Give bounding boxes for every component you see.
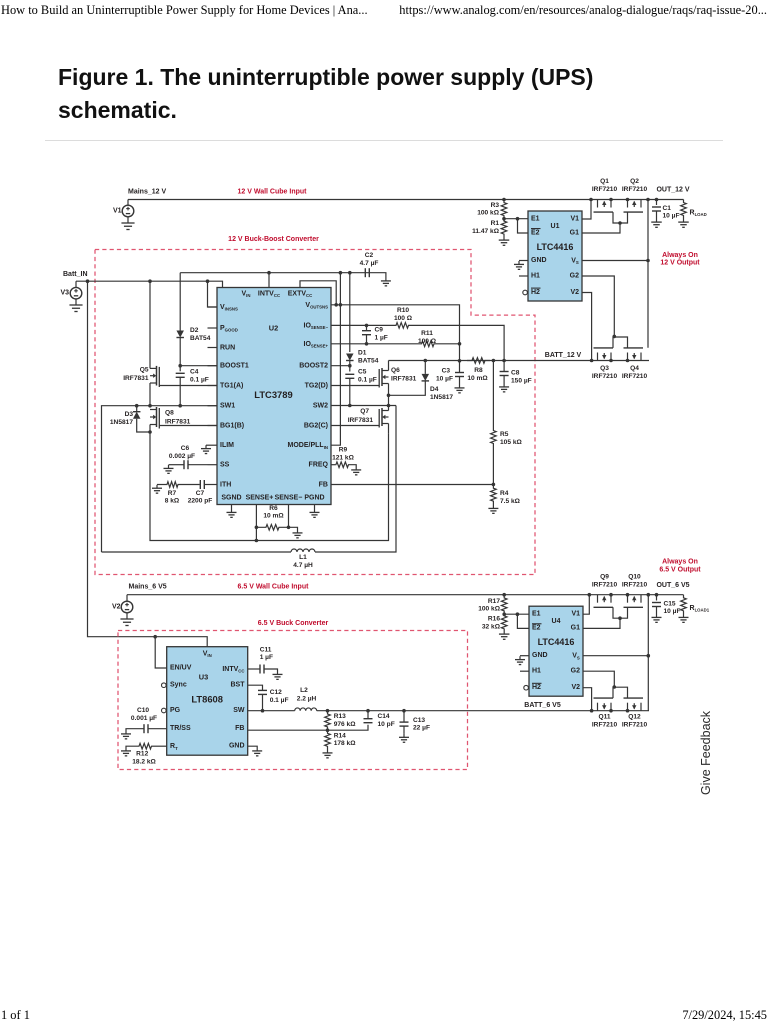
junction (609, 709, 613, 713)
wire (613, 687, 628, 698)
give feedback vertical tab (699, 711, 713, 795)
svg-text:L1: L1 (299, 554, 307, 561)
junction (516, 612, 520, 616)
svg-text:C15: C15 (664, 601, 676, 608)
wire (288, 505, 290, 528)
junction (626, 709, 630, 713)
svg-text:IRF7831: IRF7831 (391, 375, 417, 382)
junction (618, 616, 622, 620)
svg-text:U2: U2 (269, 324, 278, 333)
wire (268, 273, 270, 288)
svg-text:R13: R13 (334, 713, 346, 720)
inductor L2 (248, 710, 295, 712)
wire (517, 614, 529, 628)
junction (334, 303, 338, 307)
svg-text:G2: G2 (570, 273, 579, 280)
transistor Q2 IRF7210 (627, 200, 629, 208)
svg-text:R17: R17 (488, 598, 500, 605)
svg-text:H1: H1 (532, 668, 541, 675)
svg-text:C2: C2 (365, 252, 374, 259)
svg-text:Q5: Q5 (140, 367, 149, 374)
inverter bubble Sync (162, 683, 167, 688)
inductor L1 (102, 551, 292, 553)
svg-text:7.5 kΩ: 7.5 kΩ (500, 498, 521, 505)
junction (148, 404, 152, 408)
wire (519, 275, 528, 277)
junction (609, 198, 613, 202)
svg-text:U1: U1 (551, 223, 560, 230)
junction (502, 593, 506, 597)
wire (583, 618, 620, 628)
svg-text:H2: H2 (532, 684, 541, 691)
svg-text:C4: C4 (190, 368, 199, 375)
transistor Q12 IRF7210 (627, 703, 629, 711)
svg-text:C6: C6 (181, 445, 190, 452)
svg-text:FB: FB (319, 481, 328, 488)
transistor Q1 IRF7210 (597, 200, 599, 208)
svg-text:D1: D1 (358, 349, 367, 356)
ground (277, 671, 279, 674)
svg-text:10 µF: 10 µF (663, 213, 680, 220)
svg-text:12 V Buck-Boost Converter: 12 V Buck-Boost Converter (228, 236, 319, 243)
wire (583, 688, 592, 711)
wire (331, 405, 396, 407)
wire (128, 199, 684, 201)
junction (626, 593, 630, 597)
transistor Q5 IRF7831 (150, 367, 157, 369)
svg-text:IRF7210: IRF7210 (592, 373, 618, 380)
ground (75, 301, 77, 306)
svg-text:BST: BST (231, 682, 246, 689)
resistor R12 (152, 745, 167, 747)
svg-text:Q12: Q12 (628, 713, 641, 720)
svg-text:EN/UV: EN/UV (170, 665, 192, 672)
svg-text:IRF7210: IRF7210 (592, 721, 618, 728)
transistor Q6 IRF7831 (382, 370, 389, 372)
svg-text:C8: C8 (511, 369, 520, 376)
svg-text:LTC4416: LTC4416 (537, 242, 574, 252)
svg-text:121 kΩ: 121 kΩ (332, 454, 355, 461)
junction (339, 271, 343, 275)
wire (582, 223, 620, 233)
wire (582, 260, 648, 262)
svg-text:R1: R1 (491, 220, 500, 227)
capacitor C7 (205, 484, 208, 486)
svg-text:Q6: Q6 (391, 367, 400, 374)
inverter bubble H2 U1 (523, 290, 528, 295)
junction (206, 279, 210, 283)
svg-text:V2: V2 (571, 684, 580, 691)
transistor Q9 IRF7210 (597, 595, 599, 603)
svg-text:0.1 µF: 0.1 µF (190, 376, 209, 383)
svg-text:32 kΩ: 32 kΩ (482, 624, 501, 631)
wire (519, 260, 528, 262)
junction (365, 324, 369, 328)
wire (159, 385, 217, 387)
junction (646, 259, 650, 263)
svg-text:Sync: Sync (170, 682, 187, 689)
svg-text:R6: R6 (269, 505, 278, 512)
svg-text:U3: U3 (199, 673, 208, 682)
ground (519, 656, 521, 659)
svg-text:100 Ω: 100 Ω (418, 338, 437, 345)
resistor R10 (331, 324, 396, 326)
svg-text:10 µF: 10 µF (436, 376, 453, 383)
op-amp U2 LTC3789 body (217, 288, 331, 505)
resistor R5 (492, 361, 494, 429)
junction (424, 359, 428, 363)
svg-text:R14: R14 (334, 732, 346, 739)
ground (126, 615, 128, 620)
svg-text:TR/SS: TR/SS (170, 725, 191, 732)
inverter bubble PG (162, 708, 167, 713)
junction (178, 404, 182, 408)
svg-text:0.1 µF: 0.1 µF (270, 697, 289, 704)
ground (314, 509, 316, 512)
svg-text:IRF7210: IRF7210 (622, 373, 648, 380)
wire (255, 505, 257, 541)
wire (248, 746, 258, 747)
resistor R1 (501, 219, 507, 237)
junction (387, 404, 391, 408)
wire (613, 337, 628, 348)
wire (520, 655, 529, 657)
ground (168, 465, 170, 468)
junction (153, 635, 157, 639)
footer left: page number (1, 1008, 30, 1023)
svg-text:D3: D3 (125, 411, 134, 418)
voltage source V2 (126, 595, 128, 602)
junction (588, 593, 592, 597)
junction (647, 593, 651, 597)
wire (300, 281, 336, 305)
wire (388, 361, 390, 371)
svg-text:12 V Output: 12 V Output (660, 260, 700, 267)
svg-text:H2: H2 (531, 289, 540, 296)
wire (582, 276, 614, 336)
junction (516, 217, 520, 221)
svg-text:SW: SW (233, 707, 245, 714)
ground (125, 731, 127, 734)
svg-text:IRF7210: IRF7210 (622, 186, 648, 193)
svg-text:6.5 V Buck Converter: 6.5 V Buck Converter (258, 620, 329, 627)
wire (583, 655, 648, 657)
junction (86, 279, 90, 283)
ground (231, 509, 233, 512)
svg-text:Q4: Q4 (630, 365, 639, 372)
svg-text:R11: R11 (421, 330, 433, 337)
svg-text:8 kΩ: 8 kΩ (165, 498, 180, 505)
resistor R9 (331, 464, 335, 466)
svg-text:D4: D4 (430, 386, 439, 393)
wire (583, 595, 589, 615)
wire (647, 595, 649, 711)
capacitor C5 (345, 373, 354, 375)
svg-text:BATT_6 V5: BATT_6 V5 (524, 702, 561, 709)
transistor Q3 IRF7210 (597, 353, 599, 361)
svg-text:10 µF: 10 µF (664, 608, 681, 615)
capacitor C12 (248, 685, 263, 690)
wire (150, 425, 389, 541)
resistor R6 (256, 525, 288, 531)
svg-text:1N5817: 1N5817 (110, 419, 133, 426)
svg-text:FREQ: FREQ (309, 461, 329, 468)
svg-text:Q3: Q3 (600, 365, 609, 372)
capacitor C11 (248, 668, 260, 670)
svg-text:RLOAD1: RLOAD1 (690, 604, 710, 612)
wire (331, 425, 379, 427)
svg-text:R10: R10 (397, 307, 409, 314)
svg-text:V2: V2 (112, 604, 121, 611)
voltage source V1 (127, 200, 129, 206)
svg-text:OUT_6 V5: OUT_6 V5 (656, 582, 689, 589)
wire (127, 594, 684, 596)
wire (179, 273, 181, 331)
junction (135, 404, 139, 408)
wire (149, 383, 151, 406)
svg-text:E2: E2 (531, 230, 540, 237)
wire (331, 273, 340, 446)
ground (205, 445, 207, 448)
svg-text:100 kΩ: 100 kΩ (478, 606, 501, 613)
svg-text:E1: E1 (532, 611, 541, 618)
junction (613, 335, 617, 339)
junction (626, 198, 630, 202)
resistor R14 (325, 730, 331, 749)
wire (331, 365, 350, 367)
op-amp U4 LTC4416 body (529, 606, 583, 696)
wire (206, 444, 208, 446)
junction (261, 709, 265, 713)
svg-text:R16: R16 (488, 616, 500, 623)
svg-text:V1: V1 (570, 216, 579, 223)
svg-text:976 kΩ: 976 kΩ (334, 721, 357, 728)
junction (402, 709, 406, 713)
svg-text:0.002 µF: 0.002 µF (169, 453, 195, 460)
op-amp U3 LT8608 body (167, 647, 248, 756)
ground (327, 750, 329, 753)
wire (208, 306, 218, 308)
svg-text:2.2 µH: 2.2 µH (297, 696, 317, 703)
junction (326, 709, 330, 713)
diode D3 1N5817 (136, 406, 138, 412)
junction (148, 279, 152, 283)
svg-text:178 kΩ: 178 kΩ (334, 740, 357, 747)
svg-text:IRF7831: IRF7831 (123, 375, 149, 382)
junction (502, 359, 506, 363)
wire (208, 484, 218, 486)
svg-text:LTC4416: LTC4416 (538, 637, 575, 647)
wire (155, 637, 167, 668)
wire (314, 505, 316, 510)
header left: page title (1, 3, 368, 18)
svg-text:150 µF: 150 µF (511, 377, 532, 384)
svg-text:10 pF: 10 pF (378, 721, 395, 728)
svg-text:V1: V1 (113, 208, 122, 215)
capacitor C14 (367, 711, 369, 719)
junction (255, 539, 259, 543)
ground (156, 485, 158, 488)
ground (127, 219, 129, 224)
ground (503, 237, 505, 241)
svg-text:Q11: Q11 (598, 713, 610, 720)
svg-text:0.1 µF: 0.1 µF (358, 376, 377, 383)
header right: URL (399, 3, 767, 18)
svg-text:H1: H1 (531, 273, 540, 280)
junction (655, 593, 659, 597)
svg-text:LT8608: LT8608 (191, 694, 223, 705)
svg-text:BG2(C): BG2(C) (304, 422, 328, 429)
wire (159, 425, 217, 427)
svg-text:U4: U4 (552, 618, 561, 625)
capacitor C1 (656, 200, 658, 206)
wire (518, 219, 529, 233)
svg-text:SW2: SW2 (313, 402, 328, 409)
ground (492, 505, 494, 508)
svg-text:1N5817: 1N5817 (430, 394, 453, 401)
resistor R13 (325, 711, 331, 731)
capacitor C2 (364, 268, 366, 277)
wire (208, 385, 218, 387)
svg-text:TG1(A): TG1(A) (220, 382, 243, 389)
junction (492, 359, 496, 363)
svg-text:Q8: Q8 (165, 410, 174, 417)
resistor RLOAD (681, 200, 687, 219)
junction (613, 685, 617, 689)
resistor RLOAD1 (681, 595, 687, 614)
svg-text:GND: GND (532, 652, 548, 659)
junction (267, 271, 271, 275)
resistor R7 (179, 484, 200, 486)
junction (626, 359, 630, 363)
svg-text:12 V Wall Cube Input: 12 V Wall Cube Input (238, 189, 308, 196)
wire (583, 671, 614, 687)
ground (403, 734, 405, 737)
transistor Q7 IRF7831 (382, 410, 389, 412)
wire (331, 484, 493, 486)
wire (389, 360, 650, 362)
resistor R4 (491, 484, 497, 505)
svg-text:BAT54: BAT54 (358, 357, 379, 364)
wire (613, 212, 628, 223)
junction (589, 198, 593, 202)
svg-text:G2: G2 (571, 668, 580, 675)
svg-text:C13: C13 (413, 717, 425, 724)
svg-text:C9: C9 (375, 326, 384, 333)
wire (504, 218, 528, 220)
svg-text:Mains_12 V: Mains_12 V (128, 189, 166, 196)
junction (590, 709, 594, 713)
junction (502, 198, 506, 202)
junction (458, 342, 462, 346)
svg-text:22 µF: 22 µF (413, 725, 430, 732)
svg-text:10 mΩ: 10 mΩ (263, 513, 284, 520)
svg-text:E1: E1 (531, 216, 540, 223)
capacitor C15 (656, 595, 658, 601)
junction (609, 359, 613, 363)
ground (355, 467, 357, 470)
resistor R11 (331, 343, 421, 345)
svg-text:RUN: RUN (220, 344, 235, 351)
svg-text:6.5 V Output: 6.5 V Output (659, 566, 701, 573)
junction (458, 359, 462, 363)
svg-text:GND: GND (229, 743, 245, 750)
inverter bubble H2 U4 (524, 685, 529, 690)
boundary 6.5V buck converter box (118, 631, 468, 770)
wire (208, 347, 218, 349)
ground (125, 748, 127, 751)
svg-text:V3: V3 (60, 290, 69, 297)
svg-text:Q9: Q9 (600, 574, 609, 581)
svg-text:C11: C11 (260, 646, 272, 653)
svg-text:SENSE+: SENSE+ (246, 495, 274, 502)
svg-text:LTC3789: LTC3789 (254, 389, 292, 400)
svg-text:2200 pF: 2200 pF (188, 498, 213, 505)
svg-text:PG: PG (170, 707, 181, 714)
svg-text:4.7 µH: 4.7 µH (293, 562, 313, 569)
svg-text:C12: C12 (270, 689, 282, 696)
wire (582, 200, 591, 220)
svg-text:BATT_12 V: BATT_12 V (545, 352, 582, 359)
svg-text:L2: L2 (300, 687, 308, 694)
wire (388, 384, 390, 411)
capacitor C8 (503, 361, 505, 372)
wire (179, 338, 181, 366)
diode D1 BAT54 (346, 354, 354, 361)
svg-text:IRF7210: IRF7210 (622, 582, 648, 589)
capacitor C9 (366, 325, 368, 330)
svg-text:ILIM: ILIM (220, 442, 234, 449)
junction (365, 342, 369, 346)
svg-text:BAT54: BAT54 (190, 335, 211, 342)
svg-text:4.7 µF: 4.7 µF (360, 260, 379, 267)
svg-text:18.2 kΩ: 18.2 kΩ (132, 759, 156, 766)
junction (502, 217, 506, 221)
junction (178, 364, 182, 368)
svg-text:Batt_IN: Batt_IN (63, 271, 88, 278)
ground (656, 614, 658, 617)
junction (339, 303, 343, 307)
transistor Q10 IRF7210 (627, 595, 629, 603)
resistor R8 (467, 358, 490, 364)
svg-text:R5: R5 (500, 431, 509, 438)
svg-text:0.001 µF: 0.001 µF (131, 715, 157, 722)
wire (613, 607, 628, 618)
svg-text:C10: C10 (137, 707, 149, 714)
wire (149, 281, 151, 368)
svg-text:Always On: Always On (662, 559, 698, 566)
wire (349, 361, 351, 372)
wire (76, 281, 223, 287)
wire (388, 424, 390, 434)
svg-text:GND: GND (531, 257, 547, 264)
svg-text:SENSE−: SENSE− (275, 495, 303, 502)
resistor R3 (501, 200, 507, 219)
svg-text:IRF7210: IRF7210 (592, 186, 618, 193)
ground (503, 384, 505, 387)
wire (248, 725, 368, 730)
wire (180, 365, 217, 367)
junction (348, 364, 352, 368)
wire (208, 425, 218, 427)
capacitor C6 (189, 464, 208, 466)
wire (289, 527, 298, 529)
ground (256, 748, 258, 751)
svg-text:IRF7831: IRF7831 (165, 418, 191, 425)
svg-text:1 µF: 1 µF (260, 654, 273, 661)
svg-text:1 µF: 1 µF (375, 334, 388, 341)
svg-text:C7: C7 (196, 490, 205, 497)
